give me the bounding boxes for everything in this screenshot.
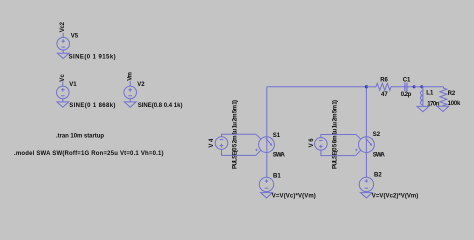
wire bbox=[414, 86, 422, 88]
ground bbox=[417, 106, 429, 111]
svg-text:Vm: Vm bbox=[127, 72, 133, 81]
svg-text:100k: 100k bbox=[448, 101, 461, 107]
behavioral source B1 bbox=[259, 177, 273, 191]
svg-text:C1: C1 bbox=[403, 77, 411, 83]
svg-text:47: 47 bbox=[381, 92, 388, 98]
wire bbox=[267, 86, 367, 88]
svg-text:V4: V4 bbox=[209, 138, 215, 148]
wire bbox=[365, 192, 367, 193]
wire bbox=[129, 99, 131, 102]
ground bbox=[57, 53, 69, 58]
resistor R6 bbox=[376, 83, 391, 90]
voltage source V6 bbox=[315, 138, 328, 151]
svg-text:SINE(0 1 915k): SINE(0 1 915k) bbox=[69, 54, 116, 60]
voltage source V1 bbox=[57, 86, 70, 99]
ground bbox=[261, 193, 273, 198]
wire bbox=[365, 87, 367, 178]
switch S2 bbox=[355, 134, 374, 155]
svg-text:Vc2: Vc2 bbox=[60, 21, 66, 32]
svg-text:0.2p: 0.2p bbox=[401, 92, 412, 98]
switch S1 bbox=[255, 134, 274, 155]
svg-text:SWA: SWA bbox=[273, 153, 286, 159]
wire bbox=[129, 81, 131, 86]
svg-text:V=V(Vc2)*V(Vm): V=V(Vc2)*V(Vm) bbox=[372, 194, 419, 200]
inductor L1 bbox=[420, 87, 422, 107]
wire bbox=[391, 86, 414, 88]
svg-text:R2: R2 bbox=[448, 91, 456, 97]
wire bbox=[321, 135, 356, 138]
wire bbox=[62, 50, 64, 53]
wire bbox=[366, 86, 376, 88]
voltage source V5 bbox=[57, 37, 70, 50]
junction bbox=[420, 85, 423, 88]
svg-text:Vc: Vc bbox=[60, 74, 66, 82]
capacitor C1 bbox=[405, 83, 407, 92]
svg-text:S1: S1 bbox=[273, 133, 281, 139]
voltage source V2 bbox=[124, 86, 137, 99]
svg-text:SINE(0.8 0.4 1k): SINE(0.8 0.4 1k) bbox=[138, 103, 183, 109]
svg-text:V1: V1 bbox=[69, 82, 77, 88]
svg-text:S2: S2 bbox=[373, 132, 381, 138]
wire bbox=[266, 192, 268, 193]
voltage source V4 bbox=[215, 137, 228, 150]
svg-text:.tran 10m startup: .tran 10m startup bbox=[56, 134, 104, 140]
svg-text:.model SWA SW(Roff=1G Ron=25u: .model SWA SW(Roff=1G Ron=25u Vt=0.1 Vh=… bbox=[14, 151, 164, 157]
wire bbox=[422, 86, 444, 88]
svg-text:SWA: SWA bbox=[373, 153, 386, 159]
ground bbox=[361, 193, 373, 198]
behavioral source B2 bbox=[359, 177, 373, 191]
wire bbox=[62, 33, 64, 38]
svg-text:V6: V6 bbox=[309, 138, 315, 148]
wire bbox=[266, 87, 268, 178]
ground bbox=[124, 102, 136, 107]
ground bbox=[437, 106, 449, 111]
svg-text:V5: V5 bbox=[71, 34, 79, 40]
svg-text:B1: B1 bbox=[273, 173, 281, 179]
junction bbox=[365, 85, 368, 88]
svg-text:V2: V2 bbox=[137, 82, 145, 88]
svg-text:SINE(0 1 868k): SINE(0 1 868k) bbox=[69, 103, 115, 109]
svg-text:R6: R6 bbox=[380, 77, 388, 83]
svg-text:B2: B2 bbox=[374, 173, 382, 179]
wire bbox=[222, 134, 256, 136]
svg-text:V=V(Vc)*V(Vm): V=V(Vc)*V(Vm) bbox=[272, 194, 316, 200]
wire bbox=[62, 99, 64, 102]
wire bbox=[321, 150, 356, 156]
ground bbox=[57, 102, 69, 107]
wire bbox=[62, 82, 64, 87]
resistor R2 bbox=[440, 87, 447, 106]
svg-text:L1: L1 bbox=[426, 91, 434, 97]
junction bbox=[413, 85, 416, 88]
wire bbox=[222, 149, 256, 155]
